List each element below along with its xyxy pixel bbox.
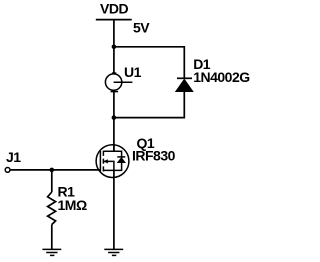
svg-text:1N4002G: 1N4002G [193,69,250,85]
node A junction [112,45,117,50]
resistor R1 [48,192,56,225]
wire node A to U1 pin 1 [113,47,115,74]
node C junction [50,168,55,173]
connector J1 [5,168,10,173]
ground under R1 [42,249,61,255]
power symbol VDD [96,19,132,21]
wire node A to D1 cathode [114,47,184,79]
svg-text:VDD: VDD [100,0,128,16]
svg-text:5V: 5V [133,20,150,36]
svg-text:J1: J1 [6,149,21,165]
wire node C to R1 [51,170,53,192]
wire U1 pin 2 to node B [113,90,115,117]
wire node B to Q1 drain [113,118,115,152]
svg-text:1MΩ: 1MΩ [58,197,87,213]
U1 pin 1 mark [112,72,116,74]
diode D1 [176,78,193,91]
indicator U1 [105,74,132,90]
wire J1 to Q1 gate [10,169,101,171]
U1 pin 2 mark [111,91,119,93]
ground under Q1 [104,249,123,255]
svg-text:U1: U1 [124,64,142,80]
transistor Q1 [96,144,129,178]
wire Q1 source to ground [113,170,115,249]
wire R1 to ground [51,225,53,250]
wire VDD to node A [113,20,115,47]
node B junction [112,115,117,120]
wire D1 anode to node B [114,92,184,118]
svg-text:IRF830: IRF830 [132,148,176,164]
